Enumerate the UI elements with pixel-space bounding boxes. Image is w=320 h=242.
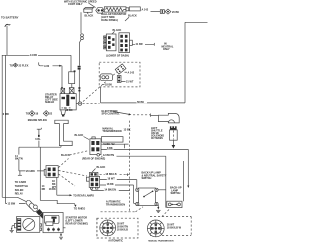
svg-text:A 80: A 80 <box>44 65 50 68</box>
svg-text:RELAY: RELAY <box>15 193 24 196</box>
svg-text:SWITCH: SWITCH <box>171 192 181 195</box>
svg-text:18 WT: 18 WT <box>107 178 115 181</box>
svg-text:58 BK: 58 BK <box>137 101 144 104</box>
svg-text:CONT ONLY: CONT ONLY <box>68 3 83 6</box>
svg-text:14 BK/GN: 14 BK/GN <box>104 189 116 192</box>
svg-text:A 142: A 142 <box>128 71 135 74</box>
svg-text:BLACK: BLACK <box>61 154 70 157</box>
svg-text:TRANSMISSION: TRANSMISSION <box>102 130 121 133</box>
svg-text:22 FLEX: 22 FLEX <box>19 64 29 67</box>
svg-text:TRANSMISSION: TRANSMISSION <box>106 203 125 206</box>
svg-text:TO CARB: TO CARB <box>15 181 27 184</box>
svg-text:(LOWER OF DASH): (LOWER OF DASH) <box>106 55 129 58</box>
svg-text:SPD CONTROL: SPD CONTROL <box>102 113 121 116</box>
svg-text:18 BK: 18 BK <box>105 84 112 87</box>
svg-text:DASH PANEL): DASH PANEL) <box>101 19 118 22</box>
svg-text:BLACK: BLACK <box>128 15 137 18</box>
svg-text:41 BR: 41 BR <box>136 43 143 46</box>
svg-text:12 BK/TN: 12 BK/TN <box>103 154 114 157</box>
svg-text:21 WT: 21 WT <box>126 81 134 84</box>
svg-text:TO: TO <box>10 64 13 67</box>
svg-text:20 BK: 20 BK <box>172 11 179 14</box>
svg-text:18 BK: 18 BK <box>107 183 114 186</box>
svg-text:12 BW: 12 BW <box>8 203 16 206</box>
svg-text:IN TRANS: IN TRANS <box>151 137 163 140</box>
svg-text:6 MD: 6 MD <box>3 113 9 116</box>
svg-text:TO BATTERY: TO BATTERY <box>1 16 19 20</box>
svg-text:BLACK: BLACK <box>97 166 106 169</box>
svg-text:13 BK: 13 BK <box>124 129 131 132</box>
svg-text:ONLY: ONLY <box>163 48 170 51</box>
svg-text:BK/TN: BK/TN <box>15 157 23 160</box>
svg-text:BLACK: BLACK <box>85 15 94 18</box>
svg-text:18 BK/LB W: 18 BK/LB W <box>167 227 182 230</box>
svg-text:18 BK: 18 BK <box>49 188 56 191</box>
svg-text:THROTTLE: THROTTLE <box>15 185 29 188</box>
svg-text:14 RD: 14 RD <box>30 54 37 57</box>
svg-text:TO: TO <box>26 113 29 116</box>
svg-text:REAR OF ENGINE): REAR OF ENGINE) <box>66 222 89 225</box>
svg-text:SHIELD: SHIELD <box>45 101 54 104</box>
svg-text:SOLEN: SOLEN <box>15 189 24 192</box>
svg-text:18 BK/LB: 18 BK/LB <box>117 229 128 232</box>
svg-text:BLACK: BLACK <box>75 134 84 137</box>
svg-text:SWITCH: SWITCH <box>142 177 152 180</box>
svg-text:8 BK: 8 BK <box>107 147 113 150</box>
svg-text:41 BK *12: 41 BK *12 <box>103 143 115 146</box>
svg-text:BLACK: BLACK <box>113 29 122 32</box>
svg-text:(REAR OF ENGINE): (REAR OF ENGINE) <box>82 157 105 160</box>
svg-text:20 HBK: 20 HBK <box>26 170 35 173</box>
svg-text:18 BK: 18 BK <box>66 109 73 112</box>
svg-text:TO REAR LAMPS: TO REAR LAMPS <box>73 194 94 197</box>
svg-text:RD: RD <box>42 188 46 191</box>
svg-text:6 BL: 6 BL <box>35 138 41 141</box>
svg-text:TO RHEO: TO RHEO <box>74 207 85 210</box>
svg-text:A 142: A 142 <box>142 8 149 11</box>
svg-text:18 BK/LB: 18 BK/LB <box>105 173 116 176</box>
svg-text:ENGINE SPLICE: ENGINE SPLICE <box>28 119 48 122</box>
